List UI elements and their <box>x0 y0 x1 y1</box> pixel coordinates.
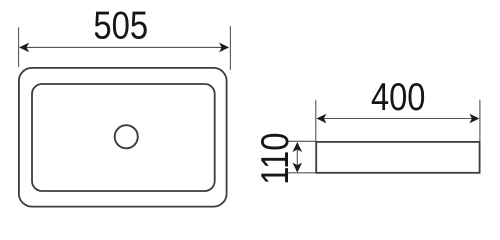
svg-text:110: 110 <box>254 133 297 185</box>
svg-text:400: 400 <box>371 76 426 119</box>
svg-text:505: 505 <box>93 5 148 48</box>
